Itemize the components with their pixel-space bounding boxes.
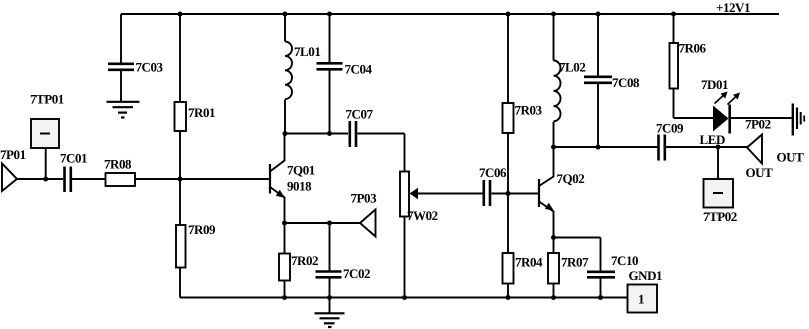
- resistor R9 7R09: [176, 179, 186, 298]
- label 7R04: [515, 255, 543, 270]
- svg-text:7C03: 7C03: [136, 60, 164, 75]
- junction top rail C08: [596, 12, 601, 17]
- capacitor C4 7C04: [317, 14, 343, 134]
- transistor Q2 emitter: [539, 202, 554, 238]
- svg-text:+12V1: +12V1: [716, 0, 750, 15]
- ground under C03: [107, 102, 140, 118]
- junction R07 bottom: [551, 295, 556, 300]
- junction R04 bottom: [506, 295, 511, 300]
- junction R02 bottom: [282, 295, 287, 300]
- label 7TP02: [703, 209, 737, 224]
- label 7R08: [104, 157, 132, 172]
- label +12V1: [716, 0, 750, 15]
- label 7Q01: [287, 163, 315, 178]
- label 7L01: [294, 44, 320, 59]
- wire LED to P02: [731, 117, 792, 119]
- port GND1: [628, 285, 658, 313]
- junction TP02 drop: [716, 145, 721, 150]
- resistor R8 7R08: [106, 173, 136, 186]
- label 7P01: [0, 147, 26, 162]
- junction top rail L02: [551, 12, 556, 17]
- svg-text:7R02: 7R02: [291, 253, 318, 268]
- junction C06 R03 R04: [506, 191, 511, 196]
- junction top rail L01: [283, 12, 288, 17]
- resistor R6 7R06: [670, 14, 714, 118]
- label OUT below: [746, 165, 774, 180]
- capacitor C9 7C09: [659, 135, 665, 161]
- label 7C04: [345, 62, 373, 77]
- svg-text:7C01: 7C01: [60, 151, 87, 166]
- svg-text:7TP01: 7TP01: [30, 92, 64, 107]
- label 7R02: [291, 253, 318, 268]
- svg-text:7P03: 7P03: [351, 191, 378, 206]
- junction top rail C04: [327, 12, 332, 17]
- svg-text:7C09: 7C09: [656, 121, 684, 136]
- junction L01 collector: [283, 131, 288, 136]
- junction top rail R06: [671, 12, 676, 17]
- ground under rail: [315, 298, 345, 328]
- resistor R3 7R03: [503, 14, 514, 194]
- label GND1: [629, 268, 663, 283]
- capacitor C10 7C10: [587, 272, 615, 298]
- inductor L2 7L02: [554, 14, 561, 147]
- label 7W02: [407, 208, 438, 223]
- svg-text:7L01: 7L01: [294, 44, 320, 59]
- svg-text:7L02: 7L02: [559, 60, 585, 75]
- wire +12V1 top rail: [121, 13, 779, 15]
- svg-text:7P01: 7P01: [0, 147, 26, 162]
- junction W02 bottom: [402, 295, 407, 300]
- capacitor C7 7C07: [350, 121, 356, 147]
- label 7Q02: [557, 171, 585, 186]
- resistor R7 7R07: [548, 238, 559, 298]
- transistor Q2 collector: [539, 147, 554, 186]
- junction C08 bottom: [596, 145, 601, 150]
- test point TP02: [704, 179, 734, 208]
- label 7P03: [351, 191, 378, 206]
- resistor R2 7R02: [279, 223, 290, 298]
- capacitor C3 7C03: [108, 14, 134, 102]
- svg-text:OUT: OUT: [746, 165, 774, 180]
- svg-text:7C10: 7C10: [611, 253, 638, 268]
- potentiometer W2 7W02: [400, 172, 418, 298]
- junction Q02 collector node: [551, 145, 556, 150]
- label 7C10: [611, 253, 638, 268]
- wire rail to R01: [179, 14, 181, 102]
- label 7C09: [656, 121, 684, 136]
- svg-text:7R09: 7R09: [188, 222, 216, 237]
- label 9018: [287, 179, 312, 194]
- label 7R06: [679, 41, 707, 56]
- svg-text:7TP02: 7TP02: [703, 209, 737, 224]
- label 7L02: [559, 60, 585, 75]
- capacitor C8 7C08: [584, 14, 612, 147]
- svg-text:LED: LED: [700, 132, 725, 147]
- transistor Q1 collector: [270, 134, 285, 172]
- connector P2 7P02 jack: [793, 104, 804, 136]
- svg-text:7R08: 7R08: [104, 157, 132, 172]
- junction base node: [178, 177, 183, 182]
- svg-text:7R07: 7R07: [561, 255, 589, 270]
- label 7R03: [515, 103, 543, 118]
- wire bottom ground rail: [180, 297, 628, 299]
- svg-text:7Q01: 7Q01: [287, 163, 315, 178]
- label 7D01: [701, 77, 728, 92]
- svg-text:7R01: 7R01: [188, 105, 215, 120]
- capacitor C6 7C06: [484, 180, 490, 206]
- junction C04 collector: [327, 131, 332, 136]
- label 7P02: [745, 117, 771, 132]
- LED D1 7D01: [713, 105, 730, 134]
- junction top rail R03: [506, 12, 511, 17]
- svg-text:7P02: 7P02: [745, 117, 771, 132]
- resistor R4 7R04: [503, 194, 514, 298]
- capacitor C1 7C01: [65, 167, 71, 193]
- wire R01 to base node: [179, 131, 181, 179]
- label 7R01: [188, 105, 215, 120]
- wire wiper to C06: [418, 193, 483, 195]
- svg-text:GND1: GND1: [629, 268, 663, 283]
- label 7C06: [479, 165, 507, 180]
- junction C10 bottom: [598, 295, 603, 300]
- resistor R1 7R01: [175, 102, 187, 131]
- svg-text:OUT: OUT: [777, 150, 805, 165]
- svg-text:7D01: 7D01: [701, 77, 728, 92]
- label 7C07: [346, 107, 374, 122]
- svg-text:1: 1: [638, 292, 644, 307]
- junction top rail R01: [178, 12, 183, 17]
- svg-text:7C04: 7C04: [345, 62, 373, 77]
- capacitor C2 7C02: [316, 223, 342, 298]
- wire C06 to Q02 base: [492, 193, 539, 195]
- wire C01 to R08: [72, 178, 106, 180]
- junction emitter node: [282, 221, 287, 226]
- label 7R07: [561, 255, 589, 270]
- svg-text:7W02: 7W02: [407, 208, 438, 223]
- svg-text:7R04: 7R04: [515, 255, 543, 270]
- wire TP01 drop: [45, 148, 47, 179]
- junction C02 top: [327, 221, 332, 226]
- label 7C01: [60, 151, 87, 166]
- wire emitter node line: [285, 222, 361, 224]
- wire emitter2 to C10: [554, 238, 601, 272]
- wire collector node line: [285, 134, 405, 172]
- junction C02 bottom: [327, 295, 332, 300]
- transistor Q1 emitter: [270, 187, 285, 223]
- transistor Q2 7Q02 base bar: [538, 179, 540, 207]
- svg-text:7C08: 7C08: [612, 75, 640, 90]
- junction emitter2 node: [551, 235, 556, 240]
- wire P01 to C01: [17, 178, 63, 180]
- inductor L1 7L01: [285, 14, 292, 134]
- connector P3 7P03: [360, 210, 376, 237]
- label 7C08: [612, 75, 640, 90]
- test point TP01: [31, 119, 59, 148]
- connector P1 7P01: [2, 164, 17, 192]
- wire collector2 line: [554, 146, 748, 148]
- svg-text:7C06: 7C06: [479, 165, 507, 180]
- junction at TP01 drop: [43, 177, 48, 182]
- svg-text:9018: 9018: [287, 179, 312, 194]
- svg-text:7C02: 7C02: [343, 266, 370, 281]
- label LED: [700, 132, 725, 147]
- connector OUT triangle: [747, 135, 762, 164]
- label 7R09: [188, 222, 216, 237]
- svg-text:7R03: 7R03: [515, 103, 543, 118]
- svg-text:7C07: 7C07: [346, 107, 374, 122]
- wire R08 to Q01 base: [135, 178, 270, 180]
- label OUT right: [777, 150, 805, 165]
- wire TP02 drop: [717, 147, 719, 179]
- svg-text:7Q02: 7Q02: [557, 171, 585, 186]
- svg-text:7R06: 7R06: [679, 41, 707, 56]
- label 7C02: [343, 266, 370, 281]
- label 7C03: [136, 60, 164, 75]
- LED arrows 7D01: [715, 92, 741, 105]
- label 7TP01: [30, 92, 64, 107]
- transistor Q1 7Q01 base bar: [269, 164, 271, 194]
